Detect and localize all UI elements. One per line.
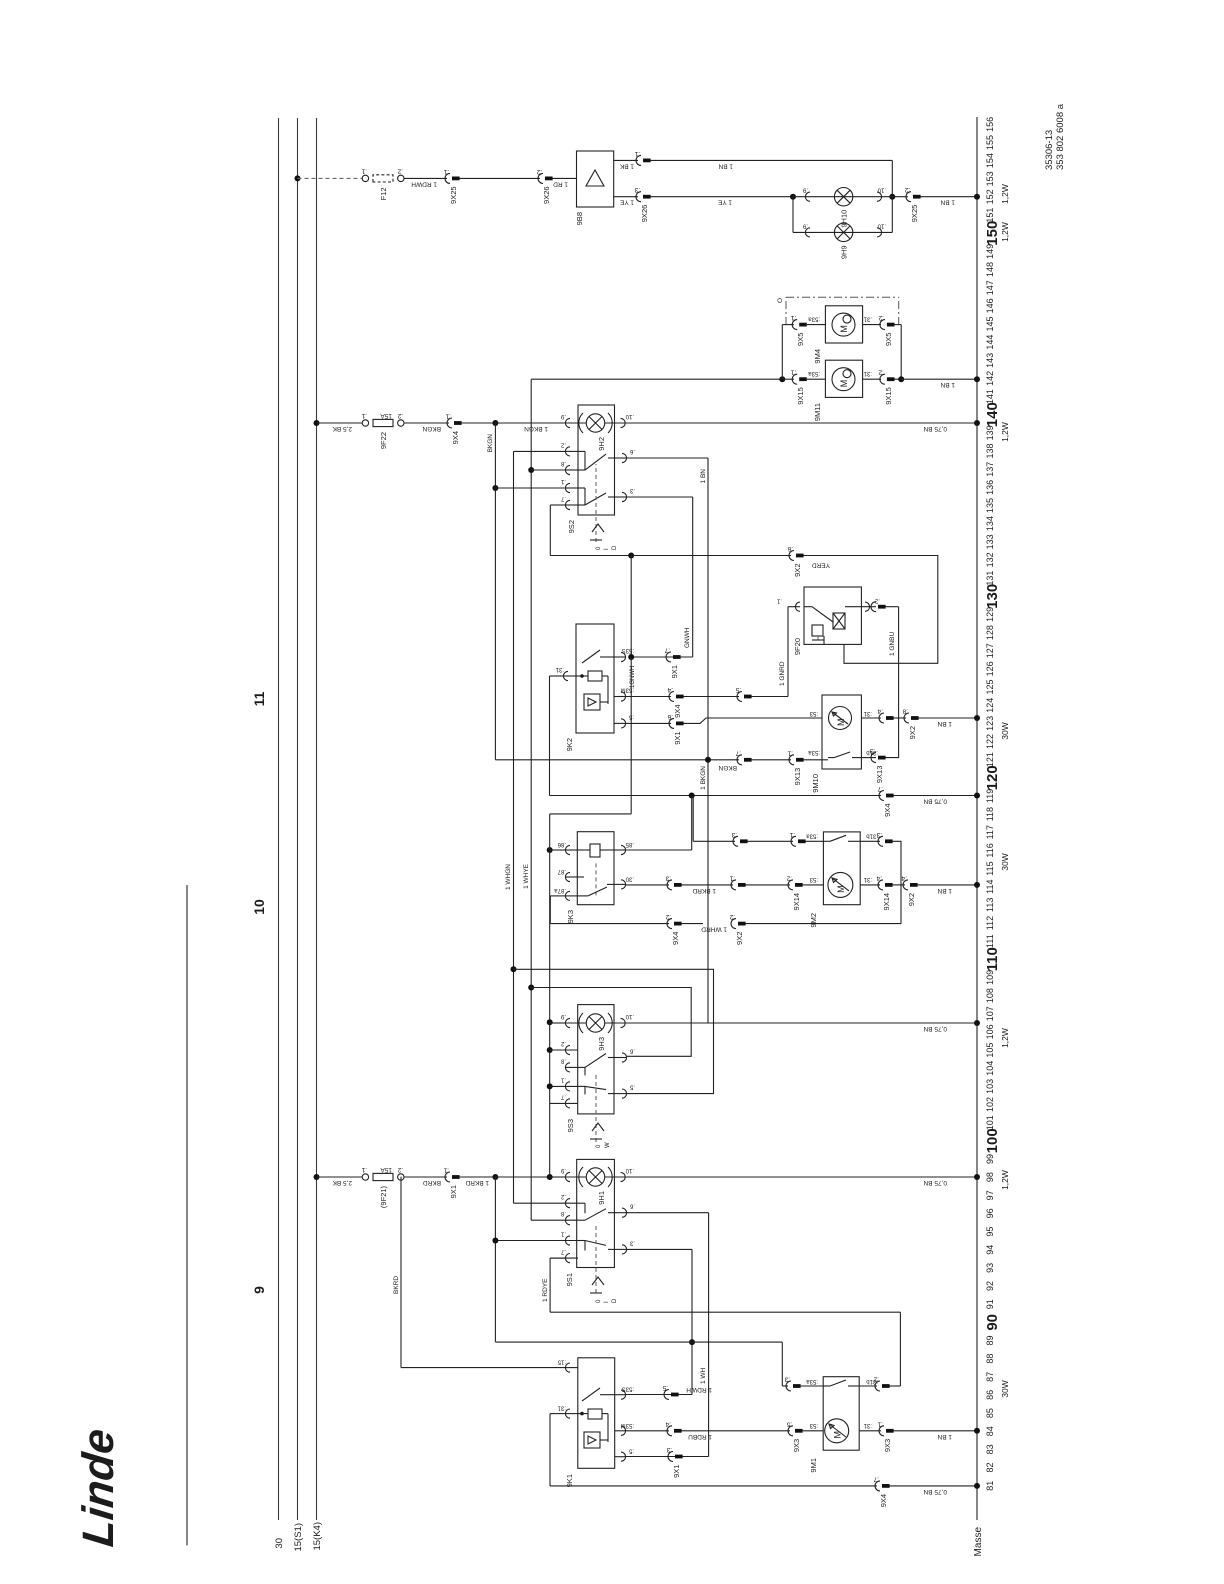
svg-text:132: 132 [985, 552, 995, 567]
svg-text:107: 107 [985, 1006, 995, 1021]
node L1 to 53S join [689, 1339, 695, 1345]
9K3 30 to 9M2 chain: connector .3 [626, 884, 669, 886]
9S1.7 to 9M1 park feed path [550, 1257, 565, 1259]
svg-text:151: 151 [985, 208, 995, 223]
wire 9M11 to Masse label 1 BN [901, 378, 977, 380]
node Masse col106 [974, 1020, 980, 1026]
svg-text:1 RDWH: 1 RDWH [411, 180, 437, 187]
9K2 pin 31 [563, 671, 568, 680]
svg-text:144: 144 [985, 335, 995, 350]
svg-text:1,2W: 1,2W [1000, 422, 1010, 442]
svg-text:9X1: 9X1 [449, 1185, 458, 1198]
svg-text::53: :53 [809, 1422, 818, 1428]
connector 9X4.4 [669, 692, 674, 702]
connector 9X4.1 [447, 418, 452, 428]
connector .1 [731, 880, 736, 890]
9S1 pin 2 from WHGN rail corner [565, 1199, 570, 1208]
svg-text:135: 135 [985, 498, 995, 513]
svg-text::31: :31 [863, 370, 872, 376]
svg-text:0: 0 [596, 1144, 602, 1148]
svg-text:117: 117 [985, 825, 995, 839]
svg-text:103: 103 [985, 1079, 995, 1094]
svg-text:.7: .7 [664, 647, 670, 654]
node 9S3.2 tap [547, 1047, 553, 1053]
9S3 mech link dashed [595, 1072, 597, 1142]
9K1 pin 53S [621, 1390, 626, 1399]
motor 9M11 [825, 360, 862, 397]
svg-text:.2: .2 [786, 874, 792, 881]
svg-text:131: 131 [985, 571, 995, 586]
svg-text:.31: .31 [863, 316, 872, 322]
wire 9F20.2 down label 1 GNBU [886, 606, 899, 608]
svg-text:.2: .2 [560, 1193, 566, 1199]
connector 9X2.6 [789, 551, 794, 561]
svg-text:0,75 BN: 0,75 BN [923, 425, 947, 432]
wire to feed rail [495, 1176, 549, 1178]
svg-text:155: 155 [985, 135, 995, 150]
svg-text:.7: .7 [560, 1248, 566, 1254]
wire 9X26 to 9B8 [553, 177, 577, 179]
svg-text:Masse: Masse [973, 1527, 984, 1557]
svg-text:1 BKGN: 1 BKGN [700, 766, 707, 790]
svg-text:1 YE: 1 YE [717, 199, 732, 206]
svg-text:15(K4): 15(K4) [312, 1522, 323, 1551]
wire rail 1 WHGN y513.5 [513, 451, 515, 1203]
svg-text:.3: .3 [731, 831, 737, 838]
connector 9X13.3 [871, 753, 876, 763]
svg-text:.1: .1 [443, 1167, 449, 1174]
wire 53M path to 9F20.1 label 1 GNRD [752, 696, 789, 698]
svg-text:133: 133 [985, 534, 995, 549]
wire junction to 9X1.7 / 9K2 53S [630, 556, 632, 658]
svg-text::31: :31 [555, 666, 564, 672]
svg-text:.6: .6 [667, 713, 673, 720]
wire 9F21 to 9X1.1 label BKRD [404, 1176, 447, 1178]
svg-text:96: 96 [985, 1208, 995, 1218]
svg-text:9X3: 9X3 [883, 1439, 892, 1452]
svg-text:1 BN: 1 BN [700, 469, 707, 484]
9K3 pin 87 [565, 872, 570, 881]
svg-text:123: 123 [985, 716, 995, 731]
svg-text:.5: .5 [735, 686, 741, 693]
connector 9X4.7 col81 [875, 1481, 880, 1491]
svg-text:35306-13: 35306-13 [1044, 130, 1055, 170]
relay 9K2 box [576, 624, 614, 733]
svg-text:0,75 BN: 0,75 BN [923, 798, 947, 805]
connector 9X2.2 [731, 919, 736, 929]
relay 9K3 box [577, 832, 614, 905]
svg-text:100: 100 [984, 1128, 1001, 1153]
9S2 pin .3 [622, 492, 627, 501]
wire rail 1 WHYE y531.2 from 9M11 corner [530, 379, 532, 1220]
svg-text:.8: .8 [560, 1057, 566, 1063]
node feed rail tap [547, 1174, 553, 1180]
svg-text:101: 101 [985, 1115, 995, 1130]
svg-text::53M: :53M [621, 1422, 634, 1428]
9S1.6 to 9X1.3 path label 1 WH [627, 1212, 709, 1214]
svg-text:112: 112 [985, 916, 995, 930]
svg-text:98: 98 [985, 1172, 995, 1182]
svg-text:9K3: 9K3 [566, 910, 575, 923]
9S2 pin .6 [622, 453, 627, 462]
wire junction down to 9X2.6 [631, 555, 791, 557]
svg-text:.4: .4 [667, 686, 673, 693]
connector 9X4.7 [879, 791, 884, 801]
wire 9B8.1 down col154 label 1 BK / 1 BN [614, 159, 638, 161]
svg-text:353 802 6008 a: 353 802 6008 a [1055, 103, 1066, 170]
9S2 pin .1 [565, 483, 570, 492]
wire col119 0.75BN rail [550, 795, 882, 797]
svg-text:Linde: Linde [74, 1426, 123, 1548]
9S2 pin .7 [565, 500, 570, 509]
svg-text:30W: 30W [1000, 722, 1010, 739]
svg-text:134: 134 [985, 516, 995, 531]
svg-text:.8: .8 [902, 708, 908, 715]
svg-text:87: 87 [985, 1372, 995, 1382]
svg-text:.6: .6 [787, 545, 793, 552]
svg-text:136: 136 [985, 480, 995, 495]
svg-text:104: 104 [985, 1061, 995, 1076]
connector 9X1.7 [631, 656, 693, 658]
svg-text:9M4: 9M4 [813, 349, 822, 364]
9K2 pin 53M [621, 692, 626, 701]
svg-text:9X4: 9X4 [883, 804, 892, 817]
node 9S3.9 tap [547, 1019, 553, 1025]
svg-text:94: 94 [985, 1245, 995, 1255]
svg-text:9X1: 9X1 [670, 665, 679, 678]
svg-text:.10: .10 [625, 1013, 634, 1019]
svg-text:120: 120 [984, 765, 1001, 790]
wire 9S2.7 jog to flasher feed [550, 504, 565, 506]
wire 9M2 to Masse label 1 BN [918, 884, 978, 886]
connector .5 on 53M path [684, 696, 740, 698]
connector 9X14.2 [788, 880, 793, 890]
svg-text:.1: .1 [787, 749, 793, 756]
9S3 pin 8 [565, 1063, 570, 1072]
svg-text:9X14: 9X14 [882, 893, 891, 911]
wire 9B8.3 down col152 label 1 YE [614, 196, 638, 198]
svg-text:1 BKRD: 1 BKRD [465, 1179, 489, 1186]
connector 9X2.4 [893, 884, 906, 886]
svg-text:M: M [836, 719, 846, 727]
svg-text:15A: 15A [380, 412, 392, 419]
svg-text:.4: .4 [877, 708, 883, 715]
thermal breaker 9F20 box [788, 606, 800, 608]
node 9M11 return [898, 376, 904, 382]
wire BKRD branch to 9K1.15 [400, 1177, 402, 1368]
svg-text:1,2W: 1,2W [1000, 1028, 1010, 1048]
connector 9M1 .3 feed [781, 1342, 783, 1386]
svg-text::53a: :53a [806, 832, 818, 838]
lamp 9H3 [586, 1014, 604, 1032]
9S1 contacts [578, 1219, 585, 1221]
svg-text:.1: .1 [634, 150, 640, 157]
wire bus to 9F21 label 2.5 BK [317, 1176, 363, 1178]
9M2 output connector 9X14.4 [860, 884, 880, 886]
node Masse col81 [974, 1483, 980, 1489]
svg-text:1 WHYE: 1 WHYE [523, 863, 530, 889]
svg-text:9X14: 9X14 [792, 893, 801, 911]
svg-text:.9: .9 [560, 413, 566, 419]
svg-text:.3: .3 [666, 1446, 672, 1453]
header rule [186, 885, 188, 1545]
svg-text:1 RD: 1 RD [553, 180, 568, 187]
lamp 9H1 in 9S1 [565, 1172, 570, 1181]
9S1 mech link dashed [595, 1224, 597, 1293]
9M10 park to 9F20 loop [861, 757, 876, 759]
svg-text:9X4: 9X4 [671, 932, 680, 945]
svg-text:9F20: 9F20 [793, 638, 802, 655]
9S1 pin 3 [622, 1245, 627, 1254]
fuse 9F22 [362, 420, 368, 426]
9M10 output to Masse [861, 717, 881, 719]
svg-text:1 GNBU: 1 GNBU [889, 631, 896, 656]
svg-text::53S: :53S [622, 647, 634, 653]
svg-text::53a: :53a [808, 316, 820, 322]
svg-text:.9: .9 [560, 1167, 566, 1173]
svg-text:.4: .4 [665, 1420, 671, 1427]
svg-text:128: 128 [985, 625, 995, 640]
wire branch to 9M4 col145 [781, 325, 783, 380]
svg-text:142: 142 [985, 371, 995, 386]
option frame dash-dot around 9M4 [786, 296, 899, 298]
svg-text:.87a: .87a [554, 887, 566, 893]
connector 9X15.2 [863, 378, 881, 380]
svg-text:.3: .3 [876, 831, 882, 838]
motor 9M4 [825, 306, 862, 343]
node bus15K4 to 9F22 [314, 420, 320, 426]
fuse 9F21 [362, 1174, 368, 1180]
svg-text:9F22: 9F22 [379, 432, 388, 449]
wire 9M1 to Masse label 1 BN [894, 1430, 978, 1432]
svg-text:102: 102 [985, 1097, 995, 1112]
9K1 31 wire to col81 Masse [550, 1413, 565, 1415]
svg-text:9X2: 9X2 [735, 932, 744, 945]
9M10 main feed from 9K2 pin5 [626, 722, 671, 724]
svg-text:O: O [777, 298, 784, 303]
svg-text:111: 111 [985, 934, 995, 948]
svg-text:1 BN: 1 BN [937, 887, 952, 894]
9S3 pin 2 [565, 1045, 570, 1054]
svg-text:BKRD: BKRD [393, 1276, 400, 1294]
svg-text:1 BKRD: 1 BKRD [692, 887, 716, 894]
connector 9M1 .2 [859, 1385, 877, 1387]
svg-text:1 RDBU: 1 RDBU [688, 1433, 712, 1440]
svg-text:.1: .1 [790, 369, 796, 376]
wire feed rail from 9H1 chain to 9K3/9S3/9S2 area [630, 657, 632, 814]
9S1 pin 6 [622, 1208, 627, 1217]
svg-text:.1: .1 [776, 598, 782, 604]
9M10 park contact [828, 757, 834, 759]
svg-text:1 BN: 1 BN [718, 162, 733, 169]
svg-text:84: 84 [985, 1426, 995, 1436]
svg-text:89: 89 [985, 1335, 995, 1345]
9M10 motor circle [829, 707, 852, 730]
svg-text:9X2: 9X2 [908, 726, 917, 739]
svg-text:.2: .2 [397, 167, 403, 174]
node 9K2 53S junction [628, 553, 634, 559]
svg-text:.30: .30 [625, 875, 634, 881]
svg-text:110: 110 [984, 947, 1001, 971]
svg-text:.8: .8 [560, 1210, 566, 1216]
wire dashed bus to F12 [298, 177, 363, 179]
connector 9X3.5 [788, 1426, 793, 1436]
svg-text:.4: .4 [901, 874, 907, 881]
connector 9X25.1 [445, 173, 450, 183]
wire rail BKGN y495 col140 to washer branch [494, 423, 496, 760]
motor 9M1 box [823, 1377, 859, 1451]
wire L1 corner down [495, 1341, 692, 1343]
9M1 park contact [823, 1385, 830, 1387]
svg-text:.10: .10 [625, 413, 634, 419]
wire 9S2.6 down to BKGN washer line label 1 BN [627, 457, 708, 459]
connector 9X26.3 [636, 192, 641, 202]
svg-text:116: 116 [985, 843, 995, 857]
svg-text:2,5 BK: 2,5 BK [332, 425, 352, 432]
svg-text:.7: .7 [735, 749, 741, 756]
svg-text:126: 126 [985, 661, 995, 676]
svg-text:105: 105 [985, 1043, 995, 1058]
wire F12 to 9X25.1 label 1 RDWH [404, 177, 447, 179]
svg-text:M: M [836, 885, 846, 893]
svg-text:81: 81 [985, 1481, 995, 1491]
svg-text::31b: :31b [866, 832, 878, 838]
9K1 internals [580, 1412, 584, 1416]
wire 9H9 return to col152 [891, 197, 893, 233]
svg-text:97: 97 [985, 1190, 995, 1200]
wire 9K2 53M to 9X4.4 [626, 696, 671, 698]
9S3 position symbol [590, 1138, 602, 1140]
svg-text:1 YE: 1 YE [619, 199, 634, 206]
svg-text:0: 0 [596, 1299, 602, 1303]
connector 9X4.2 [667, 919, 672, 929]
svg-text:9X1: 9X1 [672, 1465, 681, 1478]
svg-text:106: 106 [985, 1024, 995, 1039]
svg-text:9X2: 9X2 [907, 893, 916, 906]
washer motor 9M10 box [822, 695, 861, 769]
9M2 park feed from col119 [692, 796, 694, 842]
svg-text:.2: .2 [397, 1166, 403, 1173]
svg-text:86: 86 [985, 1390, 995, 1400]
9S1 position symbol [590, 1292, 602, 1294]
svg-text:141: 141 [985, 389, 995, 404]
connector 9X14.1 [748, 840, 794, 842]
svg-text:9S1: 9S1 [565, 1273, 574, 1286]
svg-text:1,2W: 1,2W [1000, 222, 1010, 242]
9S3 pin 9 from feed rail [550, 1022, 565, 1024]
svg-text:.10: .10 [877, 187, 886, 193]
svg-text:83: 83 [985, 1444, 995, 1454]
node 53S [628, 654, 634, 660]
svg-text:.9: .9 [802, 222, 808, 228]
9M1 output connector 9X3.1 [859, 1430, 881, 1432]
svg-text:.1: .1 [789, 831, 795, 838]
9S3 pin 6 [622, 1053, 627, 1062]
svg-text:1 WHRD: 1 WHRD [701, 926, 727, 933]
svg-text:9H1: 9H1 [597, 1191, 606, 1205]
switch 9S1 box [577, 1159, 615, 1267]
9S2 pin .2 [565, 447, 570, 456]
svg-text:.1: .1 [361, 412, 367, 419]
svg-text:.2: .2 [560, 441, 566, 447]
node Masse col152 [974, 194, 980, 200]
9M2 park contact [823, 840, 830, 842]
node 9K3.86 tap [549, 849, 551, 851]
svg-text:9X13: 9X13 [793, 768, 802, 786]
node Masse col123.5 [974, 715, 980, 721]
wire 9H2 to Masse label 0.75 BN [626, 422, 977, 424]
svg-text:152: 152 [985, 189, 995, 204]
9K3 pin 86 [565, 845, 570, 854]
svg-text:113: 113 [985, 898, 995, 912]
svg-text:M: M [833, 1431, 843, 1439]
node Masse col142 [974, 376, 980, 382]
svg-text:148: 148 [985, 262, 995, 277]
9S3 pin 1 [565, 1082, 570, 1091]
svg-text:.9: .9 [560, 1013, 566, 1019]
svg-text:.1: .1 [560, 478, 566, 484]
svg-text:.5: .5 [786, 1420, 792, 1427]
wire 9M11 feed from WHYE line corner col142 [531, 378, 782, 380]
svg-text:.4: .4 [876, 874, 882, 881]
svg-text:.6: .6 [629, 1048, 635, 1054]
svg-text:BKRD: BKRD [423, 1179, 441, 1186]
svg-text:I: I [604, 548, 610, 550]
svg-text:156: 156 [985, 117, 995, 132]
svg-text:1 BN: 1 BN [937, 1433, 952, 1440]
9F20 internals [804, 606, 812, 608]
svg-text:.1: .1 [560, 1076, 566, 1082]
svg-text::53: :53 [809, 710, 818, 716]
rail L1 left segment [494, 1177, 496, 1342]
wire to node BKGN-line [462, 422, 496, 424]
svg-text:9M2: 9M2 [809, 913, 818, 928]
node L1 rail tap [492, 1174, 498, 1180]
connector 9X25.2 [906, 192, 911, 202]
svg-text:0: 0 [596, 546, 602, 550]
svg-text:.3: .3 [629, 1239, 635, 1245]
svg-text:143: 143 [985, 353, 995, 368]
wire to 9H1 [550, 1176, 565, 1178]
svg-text:1 WHGN: 1 WHGN [505, 864, 512, 890]
node Masse col140 [974, 420, 980, 426]
9S2 pin .8 [565, 465, 570, 474]
svg-text:.3: .3 [869, 747, 875, 754]
9K3 coil [590, 844, 600, 857]
svg-text:118: 118 [985, 807, 995, 821]
wire 9S2.8 stub [531, 469, 565, 471]
svg-text:.86: .86 [557, 841, 566, 847]
wire rail BKGN corner down to 9M10 [495, 759, 708, 761]
bus 15(S1) [297, 118, 299, 1520]
switch 9S2 box [578, 405, 615, 515]
svg-text:.3: .3 [665, 874, 671, 881]
node 9M2 park feed tap [692, 794, 694, 796]
svg-text:.5: .5 [662, 1384, 668, 1391]
svg-text:9X3: 9X3 [792, 1439, 801, 1452]
svg-text:122: 122 [985, 734, 995, 749]
svg-text:85: 85 [985, 1408, 995, 1418]
svg-text:147: 147 [985, 280, 995, 295]
svg-text::53a: :53a [806, 1378, 818, 1384]
connector 9X2.8 [894, 717, 907, 719]
wire washer line to 9S3.10 label 1 BKGN [707, 760, 709, 1023]
bus 15(K4) [316, 118, 318, 1520]
svg-text:.1: .1 [877, 1420, 883, 1427]
node bus15S1 to F12 [295, 175, 301, 181]
svg-text:9X5: 9X5 [884, 333, 893, 346]
node washer feed [705, 757, 711, 763]
